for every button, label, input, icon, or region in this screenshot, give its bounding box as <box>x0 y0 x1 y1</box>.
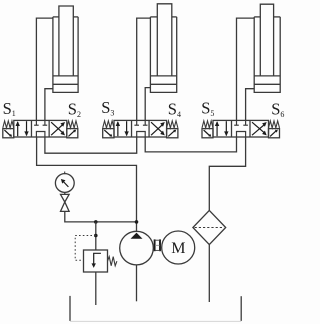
relief valve Y1 spring <box>108 257 117 266</box>
hydraulic cylinder C2 <box>150 4 176 93</box>
hydraulic pump B1 flow triangle <box>131 233 143 239</box>
wire pipe B2: valve V2 port B to cap end of cylinder C2 <box>145 88 150 121</box>
valve V2 left position: up arrow <box>116 121 120 136</box>
valve V1 right proportional solenoid <box>67 129 78 138</box>
junction node pilot tap on relief branch <box>94 234 98 238</box>
valve V3 right proportional solenoid <box>269 129 280 138</box>
wire pump pressure line: pump up, left along y=165.4, up to valve V1 port P <box>37 137 137 231</box>
wire pump suction line to tank <box>136 265 138 301</box>
valve V3 right position: crossed arrows <box>252 122 267 135</box>
wire filter F1 outlet to tank <box>208 245 210 302</box>
wire relief valve branch down from junction <box>95 222 97 250</box>
wire series link: valve V1 port T down and right to valve V2 port P <box>45 137 137 153</box>
valve V1 right position: crossed arrows <box>51 122 65 135</box>
tank base line (faint) <box>70 320 241 322</box>
4/3 solenoid directional valve V2 body <box>114 120 167 137</box>
valve V2 left position: down arrow <box>124 121 128 136</box>
wire gauge to shut-off valve <box>64 192 66 194</box>
filter F1 body (diamond) <box>193 210 226 244</box>
wire relief valve Y1 outlet to tank <box>95 272 97 305</box>
valve V1 left return spring <box>3 121 14 128</box>
valve V2 right return spring <box>167 121 178 128</box>
junction node on gauge branch (relief valve tap) <box>94 220 98 224</box>
junction node on pump pressure line <box>135 220 139 224</box>
valve V1 centre position: P-T bypass link <box>36 132 45 138</box>
hydraulic cylinder C1 <box>53 6 78 92</box>
wire pipe A2: valve V2 port A to rod end of cylinder C2 <box>137 18 151 121</box>
relief valve Y1 flow arrow <box>92 253 101 268</box>
valve V1 left proportional solenoid <box>3 129 14 138</box>
valve V1 centre position: blocked ports A,B <box>34 120 47 125</box>
shut-off valve K1 lower triangle <box>61 202 70 211</box>
pressure gauge P1 body <box>55 172 74 193</box>
wire pipe B1: valve V1 port B to cap end of cylinder C1 <box>45 89 53 121</box>
valve V2 centre position: blocked ports A,B <box>134 120 147 125</box>
wire pipe B3: valve V3 port B to cap end of cylinder C3 <box>246 89 255 121</box>
valve V3 centre position: blocked ports A,B <box>234 120 248 125</box>
relief valve Y1 body <box>84 250 108 272</box>
svg-text:M: M <box>171 240 185 257</box>
hydraulic pump B1 body <box>120 231 154 265</box>
valve V2 right proportional solenoid <box>167 129 178 138</box>
wire return line: valve V3 port T down, left, down to filter F1 <box>209 137 245 210</box>
valve V2 centre position: P-T bypass link <box>137 132 146 138</box>
hydraulic cylinder C3 <box>254 4 280 92</box>
wire pipe A1: valve V1 port A to rod end of cylinder C1 <box>36 18 53 121</box>
valve V1 left position: up arrow <box>15 121 19 136</box>
valve V2 left proportional solenoid <box>103 129 114 138</box>
4/3 solenoid directional valve V1 body <box>14 120 67 137</box>
4/3 solenoid directional valve V3 body <box>213 120 269 137</box>
filter F1 element (dashed) <box>195 227 224 229</box>
wire pipe A3: valve V3 port A to rod end of cylinder C3 <box>237 18 255 121</box>
valve V3 left return spring <box>202 121 213 128</box>
shaft coupling between pump and motor <box>155 239 160 251</box>
wire gauge branch: shut-off valve down, right to pump line junction <box>65 211 137 222</box>
tank line left <box>69 296 71 321</box>
electric motor M1 body <box>162 231 195 264</box>
valve V3 right return spring <box>269 121 280 128</box>
valve V1 right return spring <box>67 121 78 128</box>
valve V3 left proportional solenoid <box>202 129 213 138</box>
valve V2 left return spring <box>103 121 114 128</box>
valve V3 centre position: P-T bypass link <box>237 132 246 138</box>
valve V1 left position: down arrow <box>24 121 28 136</box>
wire series link: valve V2 port T down and right to valve V3 port P <box>145 137 236 152</box>
wire pilot line (dashed) from tap to relief valve Y1 <box>75 236 96 261</box>
pressure gauge P1 needle <box>61 179 69 187</box>
valve V3 left position: up arrow <box>215 121 219 136</box>
shut-off valve K1 upper triangle <box>61 194 70 202</box>
tank line right <box>240 296 242 321</box>
valve V2 right position: crossed arrows <box>151 122 165 135</box>
valve V3 left position: down arrow <box>224 121 228 136</box>
